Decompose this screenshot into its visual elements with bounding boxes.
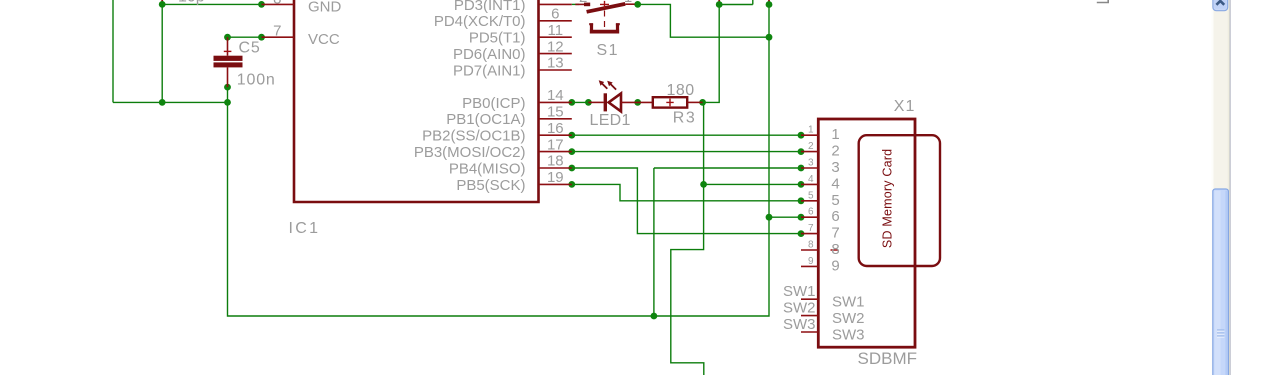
junction X1 pin1 tip	[798, 132, 805, 139]
wire net PB4/MISO jog down to X1 pin7	[572, 168, 801, 234]
junction IC pin14 tip	[568, 99, 575, 106]
IC1 left pin stub VCC (pin 7)	[262, 36, 295, 38]
svg-text:5: 5	[831, 192, 839, 209]
wire VDD node to upper-right off-screen	[719, 0, 753, 5]
connector X1 pin8 unconnected dash	[831, 249, 839, 251]
pin stub from off-screen part above GND rail top	[768, 0, 770, 4]
junction GND rail tee at X1 pin6 row	[766, 214, 773, 221]
IC1 right pin stubs rows PB0..PB5	[539, 102, 572, 184]
capacitor C5 origin cross	[224, 50, 232, 52]
svg-text:13: 13	[547, 55, 564, 72]
svg-text:PB3(MOSI/OC2): PB3(MOSI/OC2)	[414, 144, 526, 161]
svg-text:PD6(AIN0): PD6(AIN0)	[453, 46, 526, 63]
junction IC VCC pin tip	[258, 34, 265, 41]
wire vertical from node A down to VCC-left rail	[161, 4, 163, 102]
wire X1 pin4 branch	[704, 183, 801, 185]
wire IC pin PD3 to S1 left terminal	[572, 3, 579, 5]
capacitor C5 bottom pin stub	[227, 67, 229, 87]
svg-text:SW1: SW1	[783, 283, 816, 300]
switch S1 right pin stub	[625, 3, 634, 5]
svg-text:7: 7	[273, 23, 281, 40]
svg-text:2: 2	[808, 141, 814, 152]
junction IC pin16 tip	[568, 132, 575, 139]
svg-text:SW3: SW3	[832, 327, 865, 344]
svg-text:C5: C5	[239, 39, 261, 56]
frame corner fragment top right	[1097, 0, 1108, 3]
svg-text:VCC: VCC	[308, 31, 340, 48]
junction IC pin18 tip	[568, 165, 575, 172]
svg-text:4: 4	[831, 175, 839, 192]
svg-text:SW2: SW2	[832, 310, 865, 327]
switch S1 contact bracket	[592, 24, 618, 31]
switch S1 left pin stub	[575, 3, 584, 5]
connector X1 box outline	[818, 119, 915, 347]
svg-text:7: 7	[808, 223, 814, 234]
svg-text:11: 11	[548, 22, 564, 39]
wire S1 right terminal to GND rail	[638, 4, 769, 37]
connector X1 pin stubs 1-9	[801, 135, 818, 266]
junction S1 net joins GND rail	[766, 34, 773, 41]
svg-text:GND: GND	[308, 0, 342, 15]
wire net VCC-left vertical segment	[112, 0, 114, 102]
resistor R3 origin cross	[666, 99, 673, 107]
svg-text:SW3: SW3	[783, 316, 816, 333]
switch S1 origin cross	[600, 1, 609, 8]
svg-text:4: 4	[808, 174, 814, 185]
resistor R3 body	[653, 97, 687, 107]
svg-text:3: 3	[831, 159, 839, 176]
svg-text:PD7(AIN1): PD7(AIN1)	[453, 62, 526, 79]
svg-text:2: 2	[579, 0, 587, 6]
svg-text:LED1: LED1	[590, 112, 631, 129]
scrollbar right border	[1230, 0, 1231, 375]
pin stub from off-screen part above VDD node	[718, 0, 720, 5]
svg-text:3: 3	[808, 158, 814, 169]
svg-text:SW1: SW1	[832, 294, 865, 311]
scrollbar thumb	[1213, 189, 1229, 375]
junction VCC-left rail / C5 column	[224, 99, 231, 106]
svg-text:PB2(SS/OC1B): PB2(SS/OC1B)	[422, 128, 525, 145]
svg-text:R3: R3	[673, 110, 696, 127]
SD Memory Card rounded outline	[859, 135, 940, 266]
junction X1 pin5 tip	[798, 197, 805, 204]
svg-text:1: 1	[624, 0, 632, 6]
junction VDD node top	[716, 1, 723, 8]
svg-text:2: 2	[831, 143, 839, 160]
svg-text:8: 8	[831, 241, 839, 258]
wire VDD node down to R3 junction	[703, 5, 720, 103]
wire net PB2/SS to X1 pin1	[572, 134, 801, 136]
junction IC pin17 tip	[568, 148, 575, 155]
junction S1 right terminal	[634, 1, 641, 8]
junction GND rail top	[766, 1, 773, 8]
svg-text:PB4(MISO): PB4(MISO)	[449, 160, 526, 177]
IC1 right pin stubs rows PD3,PD4,PD5,PD6,PD7	[539, 4, 572, 70]
svg-text:1: 1	[831, 126, 839, 143]
LED LED1 cathode bar	[604, 93, 607, 111]
svg-text:6: 6	[808, 207, 814, 218]
IC1 left pin stub GND (pin 8)	[262, 3, 295, 5]
junction LED1 cathode / R3	[634, 99, 641, 106]
svg-text:6: 6	[551, 6, 559, 23]
junction X1 pin6 tip	[798, 214, 805, 221]
scrollbar up arrow	[1216, 1, 1224, 5]
junction X1 pin7 tip	[798, 230, 805, 237]
LED LED1 wire to R3	[621, 101, 653, 103]
svg-text:8: 8	[273, 0, 281, 8]
junction VDD column tee at X1 pin4 row	[700, 181, 707, 188]
svg-text:10p: 10p	[178, 0, 205, 6]
wire net GND: C5 bottom down, along bottom, and up right side	[228, 5, 770, 317]
wire X1 pin3 to GND bus	[654, 168, 801, 316]
connector X1 pin stubs SW1,SW2,SW3	[801, 299, 818, 332]
junction GND bus tee at bottom	[651, 313, 658, 320]
switch S1 arm	[587, 4, 626, 12]
wire VCC row horizontal from C5 top to IC VCC pin	[228, 36, 262, 38]
junction R3 right tee	[699, 99, 706, 106]
svg-text:X1: X1	[894, 98, 916, 115]
svg-text:7: 7	[831, 225, 839, 242]
wire net PB3/MOSI to X1 pin2	[572, 151, 801, 153]
capacitor C5 top pin stub	[227, 37, 229, 56]
junction X1 pin3 tip	[798, 165, 805, 172]
scrollbar track	[1212, 0, 1230, 375]
capacitor C5 bottom plate	[214, 62, 243, 67]
wire net PB5/SCK jog down to X1 pin5	[572, 184, 801, 200]
wire R3 junction down to X1 pin4 row and off-screen bottom	[671, 102, 704, 375]
svg-text:PB0(ICP): PB0(ICP)	[462, 95, 525, 112]
junction IC pin19 tip	[568, 181, 575, 188]
svg-text:PD5(T1): PD5(T1)	[469, 30, 526, 47]
wire PB0 pin to LED1 anode	[572, 101, 589, 103]
svg-text:9: 9	[808, 256, 814, 267]
svg-text:17: 17	[547, 136, 564, 153]
op-amp/mcu IC1 box outline (top cut off)	[294, 0, 539, 202]
svg-text:S1: S1	[597, 42, 620, 59]
junction IC GND pin tip	[258, 1, 265, 8]
svg-text:18: 18	[547, 153, 564, 170]
svg-text:180: 180	[667, 82, 695, 99]
switch S1 actuator dashed line	[604, 11, 606, 32]
LED LED1 emission arrow 1	[601, 83, 607, 89]
svg-text:15: 15	[547, 104, 564, 121]
svg-text:SD Memory Card: SD Memory Card	[881, 149, 895, 248]
wire X1 pin6 to GND rail	[769, 216, 801, 218]
switch S1 left contact dash	[584, 3, 590, 7]
svg-text:1: 1	[808, 125, 814, 136]
svg-text:SW2: SW2	[783, 300, 816, 317]
svg-text:6: 6	[831, 208, 839, 225]
capacitor C5 top plate	[214, 56, 243, 61]
junction VCC-left rail / node A column	[159, 99, 166, 106]
scrollbar thumb grip	[1217, 330, 1224, 336]
junction X1 pin4 tip	[798, 181, 805, 188]
LED LED1 emission arrow 2	[610, 83, 617, 90]
junction C5 top / VCC row	[224, 34, 231, 41]
svg-text:16: 16	[547, 120, 564, 137]
junction C5 bottom pin tip	[224, 84, 231, 91]
svg-text:100n: 100n	[237, 72, 276, 89]
wire GND row horizontal from node A to IC GND pin	[162, 3, 261, 5]
svg-text:IC1: IC1	[289, 220, 321, 237]
junction LED1 anode wire	[585, 99, 592, 106]
svg-text:14: 14	[547, 87, 564, 104]
resistor R3 right pin stub	[687, 101, 702, 103]
svg-text:19: 19	[547, 169, 564, 186]
scrollbar up button (cut off at top)	[1213, 0, 1228, 11]
svg-text:PD4(XCK/T0): PD4(XCK/T0)	[434, 13, 526, 30]
LED LED1 anode wire stub	[588, 101, 603, 103]
svg-text:PB1(OC1A): PB1(OC1A)	[446, 111, 525, 128]
LED LED1 triangle	[609, 93, 621, 111]
svg-text:PD3(INT1): PD3(INT1)	[454, 0, 526, 14]
junction X1 pin2 tip	[798, 148, 805, 155]
svg-text:12: 12	[547, 38, 564, 55]
capacitor pin stub from above (off-screen part) at node A	[161, 0, 163, 4]
wire net VCC-left horizontal segment to C5 column	[113, 101, 228, 103]
svg-text:PB5(SCK): PB5(SCK)	[456, 177, 525, 194]
svg-text:5: 5	[808, 190, 814, 201]
svg-text:8: 8	[808, 240, 814, 251]
junction node A top-left	[159, 1, 166, 8]
svg-text:SDBMF: SDBMF	[858, 349, 918, 368]
svg-text:9: 9	[831, 257, 839, 274]
